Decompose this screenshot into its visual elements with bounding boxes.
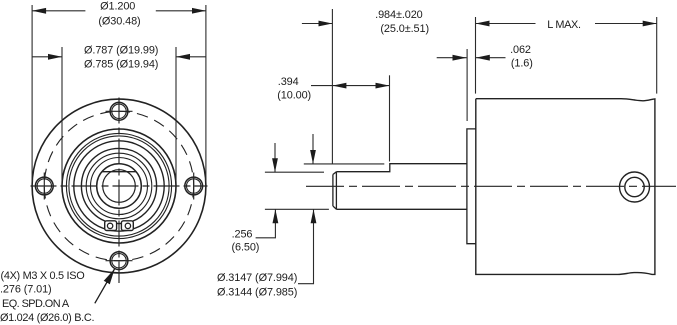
mounting hole right [185, 177, 203, 195]
mounting hole bottom [110, 252, 128, 270]
horizontal centerline [31, 185, 208, 187]
left ear hole [107, 223, 112, 228]
side view centerline [306, 185, 676, 187]
extension line flat end [389, 75, 391, 161]
shaft circle [97, 164, 142, 209]
vertical centerline [118, 98, 120, 284]
dim .062 right arrow [476, 57, 506, 59]
flange circle [32, 99, 206, 273]
dim line flange left segment [32, 10, 85, 12]
bolt circle (dashed) [44, 111, 193, 260]
extension line body rear [656, 17, 658, 94]
dim .256 down arrow [274, 143, 276, 172]
dim line boss right segment [176, 56, 206, 58]
dim .394 leader line [311, 85, 332, 87]
dim L MAX right segment [595, 23, 657, 25]
extension line flange right [205, 5, 207, 181]
bushing circle [91, 158, 148, 215]
dim line boss left segment [32, 56, 62, 58]
shaft outline [333, 164, 467, 210]
dim dia down arrow [312, 134, 314, 164]
svg-text:.394: .394 [278, 76, 299, 88]
extension line boss left [61, 47, 63, 180]
boss inner edge circle [66, 133, 171, 238]
mounting hole left [35, 177, 53, 195]
svg-text:Ø1.200: Ø1.200 [100, 0, 135, 12]
right hole vertical crosshair [193, 173, 195, 200]
dim .062 left arrow [437, 57, 467, 59]
dim .256 up arrow + leader [256, 209, 276, 238]
right ear hole [125, 223, 130, 228]
dim shaft top extension line [304, 163, 385, 165]
dim L MAX left segment (shared arrow with .984) [476, 23, 536, 25]
svg-text:Ø1.024 (Ø26.0) B.C.: Ø1.024 (Ø26.0) B.C. [0, 312, 94, 324]
dim .394 line with arrows [332, 85, 389, 87]
rear hub outer circle [620, 172, 650, 202]
extension line boss right [175, 47, 177, 180]
svg-text:(Ø30.48): (Ø30.48) [98, 16, 140, 28]
svg-text:(1.6): (1.6) [511, 58, 533, 70]
svg-text:L MAX.: L MAX. [547, 19, 581, 31]
mounting holes [35, 102, 202, 269]
svg-text:(6.50): (6.50) [231, 241, 259, 253]
collar (boss side view) [467, 129, 476, 244]
svg-text:.256: .256 [232, 229, 253, 241]
retaining ring outer circle [74, 141, 164, 231]
bottom hole horizontal crosshair [106, 260, 133, 262]
centerlines front view [31, 98, 208, 284]
left hole vertical crosshair [43, 173, 45, 200]
top hole horizontal crosshair [106, 110, 133, 112]
dim .984 left arrow [302, 23, 333, 25]
leader arrow to bottom hole [95, 269, 115, 304]
dim .256 top extension line [265, 171, 324, 173]
svg-text:(4X) M3 X 0.5 ISO: (4X) M3 X 0.5 ISO [1, 270, 85, 282]
svg-text:Ø.3147 (Ø7.994): Ø.3147 (Ø7.994) [217, 272, 297, 284]
svg-text:Ø.3144 (Ø7.985): Ø.3144 (Ø7.985) [217, 286, 297, 298]
extension line shaft end [331, 9, 333, 164]
extension line collar left [466, 49, 468, 121]
boss circle [62, 129, 176, 243]
shaft inner chamfer circle [103, 170, 136, 203]
svg-text:(10.00): (10.00) [277, 89, 311, 101]
extension line flange left [31, 5, 33, 181]
svg-text:Ø.787 (Ø19.99): Ø.787 (Ø19.99) [84, 45, 158, 57]
svg-text:EQ. SPD.ON A: EQ. SPD.ON A [2, 298, 70, 310]
retaining ring right ear [121, 221, 133, 231]
mounting hole top [110, 102, 128, 120]
dim dia up arrow + leader [298, 209, 314, 283]
shaft flat chord [102, 171, 136, 173]
svg-text:.984±.020: .984±.020 [375, 9, 423, 21]
boss chamfer circle [69, 136, 169, 236]
rear hub inner circle [625, 177, 644, 196]
dim line flange right segment [156, 10, 206, 12]
svg-text:(25.0±.51): (25.0±.51) [380, 23, 429, 35]
retaining ring left ear [105, 221, 117, 231]
extension line body front face [475, 17, 477, 94]
dim bottom extension line [265, 208, 329, 210]
svg-text:.276 (7.01): .276 (7.01) [0, 284, 52, 296]
svg-text:Ø.785 (Ø19.94): Ø.785 (Ø19.94) [84, 59, 158, 71]
retaining ring inner circle [81, 148, 156, 223]
svg-text:.062: .062 [510, 44, 531, 56]
bearing circle [86, 153, 152, 219]
body outline [476, 99, 655, 275]
